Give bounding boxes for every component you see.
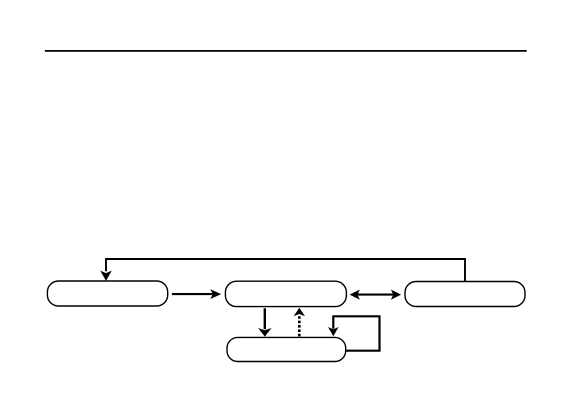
box: middle stadium	[225, 281, 346, 306]
box: bottom stadium	[227, 337, 346, 361]
arrowhead: into middle box (right)	[210, 289, 221, 299]
wire: feedback path from right box top to left box top	[106, 259, 465, 282]
arrowhead: toward right box (right)	[391, 290, 401, 300]
arrowhead: toward middle box (left)	[350, 290, 360, 300]
wire: down arrow shaft middle box to bottom box	[264, 308, 266, 329]
arrowhead: feedback into left box (down)	[100, 271, 112, 281]
wire: dotted arrow shaft bottom box to middle box	[298, 316, 301, 337]
arrowhead: into middle box (up, dotted arrow)	[294, 308, 305, 317]
wire: arrow shaft left box to middle box	[172, 293, 213, 295]
arrowhead: into bottom box (down)	[258, 328, 271, 337]
horizontal rule	[45, 50, 527, 52]
box: right stadium	[405, 282, 525, 307]
wire: self-loop around bottom box right side	[333, 316, 379, 350]
wire: double arrow shaft middle and right box	[358, 294, 394, 296]
arrowhead: self-loop into bottom box (down)	[328, 327, 339, 336]
box: left stadium	[47, 281, 167, 306]
